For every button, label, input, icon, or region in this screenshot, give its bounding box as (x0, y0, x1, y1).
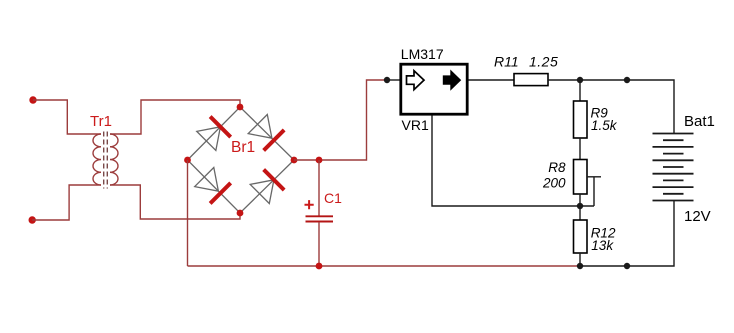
svg-text:12V: 12V (684, 208, 711, 225)
svg-text:R8: R8 (548, 160, 566, 175)
svg-text:Bat1: Bat1 (684, 113, 715, 130)
diode D4 triangle (bottom node to right node) (250, 180, 274, 204)
diode D3 triangle (left node to bottom node) (195, 168, 219, 192)
node: primary bottom terminal (29, 216, 36, 223)
label C1 plus sign (305, 200, 314, 209)
wire primary top (33, 100, 101, 134)
node: C1 top junction (316, 157, 323, 164)
wire primary bottom (32, 185, 101, 220)
op-amp U1 LM317 regulator box (401, 64, 467, 114)
diode D2 triangle (top node to right node) (248, 115, 272, 139)
wire C1 top lead (318, 160, 320, 216)
wire C1 bottom lead (318, 222, 320, 266)
diode D4 cathode bar (264, 170, 285, 191)
wire R11 to battery top (548, 80, 674, 134)
diode D2 cathode bar (264, 130, 285, 151)
svg-text:Tr1: Tr1 (90, 113, 112, 130)
R8 wiper (587, 177, 601, 206)
wire R12 bottom lead (579, 253, 581, 266)
resistor R8 potentiometer (574, 160, 588, 195)
transformer Tr1 secondary winding (110, 134, 118, 185)
bridge Br1 diamond edges (188, 107, 295, 213)
LM317 input hollow arrow (407, 71, 425, 90)
diode D3 cathode bar (210, 183, 231, 204)
svg-text:1.25: 1.25 (529, 54, 558, 70)
svg-text:C1: C1 (324, 190, 342, 206)
wire R8 to R12 (579, 194, 581, 220)
diode D1 triangle (left node to top node) (197, 127, 221, 151)
wire bridge right node to regulator input (294, 80, 387, 160)
svg-text:LM317: LM317 (401, 46, 444, 62)
node: top rail junction (624, 77, 630, 83)
wire ground rail black (580, 201, 674, 267)
node: adjust junction (577, 203, 583, 209)
node: regulator input junction (384, 77, 390, 83)
node: primary top terminal (29, 96, 36, 103)
node: C1 bottom junction (316, 263, 323, 270)
node: bridge right (291, 157, 298, 164)
wire secondary top to bridge top node (110, 100, 240, 134)
wire regulator output to R11 (469, 79, 515, 81)
node: bridge left (184, 157, 191, 164)
svg-text:Br1: Br1 (231, 139, 255, 156)
wire ground rail red (188, 265, 581, 267)
node: ground rail junction right (624, 263, 630, 269)
wire R9 to R8 (579, 138, 581, 160)
resistor R11 (514, 74, 548, 86)
capacitor C1 plates (306, 216, 334, 221)
wire into regulator (387, 79, 400, 81)
resistor R12 (574, 220, 588, 253)
resistor R9 (574, 101, 588, 138)
transformer Tr1 primary winding (93, 134, 101, 185)
node: R9 top junction (577, 77, 583, 83)
wire R9 top lead (579, 80, 581, 101)
node: bridge top (237, 104, 244, 111)
LM317 output solid arrow (443, 71, 460, 90)
node: bridge bottom (237, 210, 244, 217)
svg-text:VR1: VR1 (402, 117, 429, 133)
battery Bat1 cells (653, 134, 694, 201)
svg-text:R11: R11 (494, 54, 519, 70)
svg-text:1.5k: 1.5k (591, 118, 618, 133)
node: ground rail junction R12 (577, 263, 583, 269)
wire regulator adjust pin (432, 116, 594, 207)
diode D1 cathode bar (210, 117, 231, 138)
svg-text:13k: 13k (591, 238, 614, 253)
wire secondary bottom to bridge bottom node (110, 185, 240, 219)
transformer Tr1 core (104, 132, 108, 189)
wire bridge left node down to ground rail (187, 160, 189, 266)
svg-text:200: 200 (542, 176, 566, 191)
